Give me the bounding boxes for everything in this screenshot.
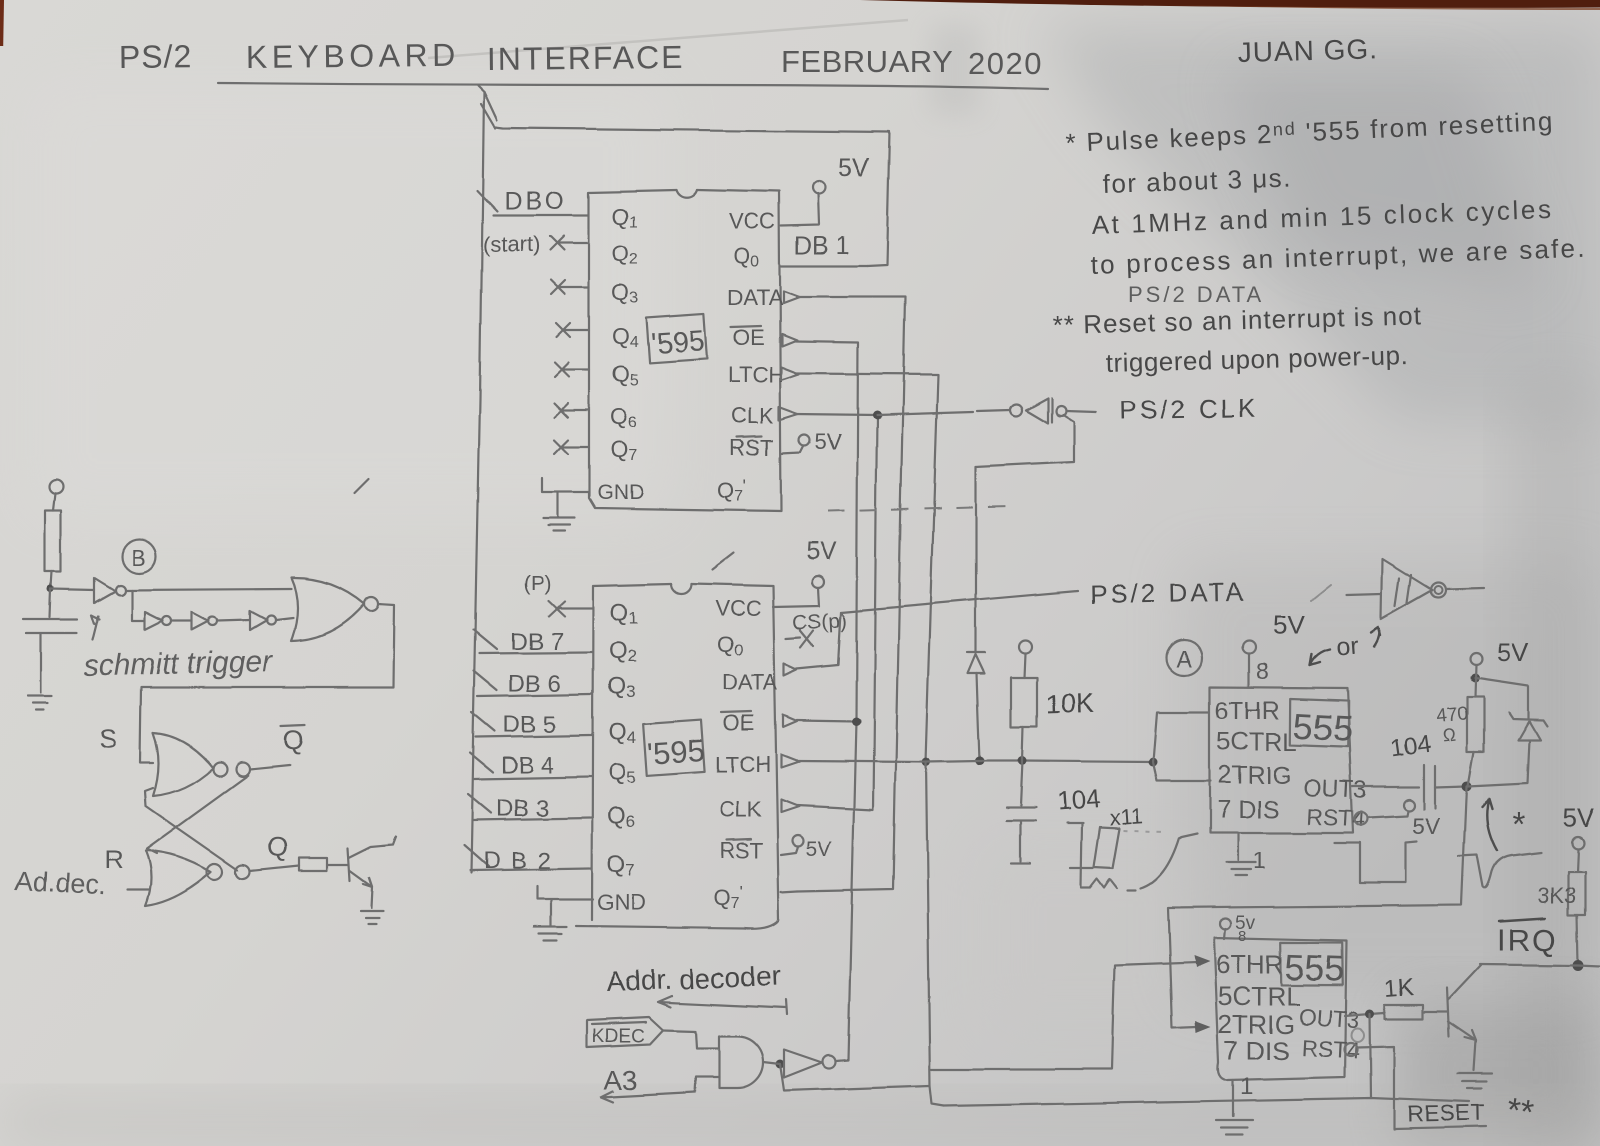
wire inverter out up to OE bus (836, 721, 856, 1061)
svg-text:IRQ: IRQ (1497, 922, 1558, 957)
wire AND out (763, 1062, 780, 1064)
wire to inverter (51, 589, 94, 590)
wire Q out (250, 866, 299, 871)
wire DATA net (U1 DATA to U2 Q7') (796, 297, 905, 891)
KDEC flag (587, 1017, 663, 1047)
transistor Q2 emitter arrow (1465, 1031, 1476, 1041)
svg-text:RST4: RST4 (1306, 803, 1366, 832)
svg-text:VCC: VCC (715, 596, 762, 621)
svg-text:Q: Q (283, 725, 304, 755)
wire 10K to bus (1022, 727, 1023, 761)
arrow OE in (782, 334, 797, 346)
resistor 1K (1384, 974, 1423, 1019)
555 A label box (1288, 698, 1355, 749)
svg-text:Q: Q (267, 832, 288, 862)
svg-text:OUT3: OUT3 (1298, 1003, 1361, 1033)
wire PS/2 CLK elbow down (976, 411, 1096, 467)
SR upper output node (236, 762, 250, 776)
svg-text:(start): (start) (483, 232, 540, 257)
svg-text:(P): (P) (523, 572, 551, 595)
diode (CLK to trigger bus) (968, 653, 985, 674)
svg-text:DATA: DATA (722, 670, 778, 695)
data bus vertical (471, 92, 484, 872)
wire (276, 618, 293, 620)
wire DB4 (474, 777, 592, 779)
diode (PS/2 CLK clamp) (1026, 398, 1052, 423)
svg-text:*: * (1512, 805, 1525, 842)
wire R input (127, 889, 149, 891)
resistor (base) (299, 858, 327, 871)
node IRQ (1573, 960, 1584, 971)
IRQ label (overline) (1497, 918, 1558, 957)
svg-text:schmitt trigger: schmitt trigger (83, 645, 273, 683)
svg-text:Ω: Ω (1441, 725, 1456, 746)
svg-text:10K: 10K (1045, 688, 1094, 720)
svg-text:DATA: DATA (727, 285, 783, 310)
wire GND (542, 478, 589, 518)
terminal 5V (U1 VCC) (813, 182, 826, 195)
wire OUT3 to cap (1353, 786, 1419, 788)
inverter 3 bubble (209, 617, 218, 626)
wire DB6 (478, 694, 592, 696)
wire 5V to 555A (1248, 654, 1250, 687)
svg-text:OE: OE (733, 325, 765, 350)
svg-text:DB 6: DB 6 (508, 670, 561, 697)
IC U1 top notch (676, 190, 697, 198)
svg-text:104: 104 (1389, 731, 1432, 763)
resistor 3K3 (1537, 872, 1585, 915)
or label with arrows (1310, 627, 1380, 665)
wire (218, 620, 250, 621)
node diode junction (976, 757, 985, 766)
svg-text:FEBRUARY: FEBRUARY (781, 44, 953, 79)
wire (53, 493, 55, 510)
svg-text:R: R (104, 845, 123, 875)
node LTCH junction (922, 758, 931, 767)
wire RST4 to RESET (1357, 1046, 1487, 1129)
inverter (decoder) (784, 1050, 822, 1078)
wire DB5 (476, 735, 592, 737)
wire resistor to node (1468, 752, 1474, 786)
NOR gate (SR latch lower) (145, 851, 211, 906)
wire VCC to 5V (773, 588, 819, 607)
wire to base (327, 864, 348, 866)
table edge strip (top) (860, 0, 1600, 8)
svg-text:JUAN GG.: JUAN GG. (1237, 33, 1378, 68)
arrow OE in (783, 715, 797, 727)
wire CLK to PS/2 CLK (877, 410, 1010, 415)
SR lower bubble (207, 864, 223, 880)
svg-text:**: ** (1505, 1090, 1536, 1131)
svg-text:PS/2: PS/2 (119, 38, 193, 75)
pin Q6 with x (554, 403, 637, 431)
arrow under label (658, 996, 787, 1015)
waveform spike with arrow (1459, 799, 1541, 888)
svg-text:5V: 5V (814, 429, 841, 454)
wire OE net (U1 OE to U2 OE) (795, 341, 858, 721)
terminal RST4 circle (1355, 813, 1368, 826)
svg-text:'595: '595 (650, 325, 706, 361)
ground (555B pin1) (1216, 1073, 1253, 1135)
svg-text:6THR: 6THR (1215, 697, 1280, 725)
svg-text:CLK: CLK (719, 797, 762, 822)
wire 5V to 3K3 (1577, 849, 1578, 872)
svg-text:1: 1 (1253, 848, 1266, 875)
svg-text:7 DIS: 7 DIS (1224, 1035, 1289, 1065)
svg-text:LTCH: LTCH (728, 362, 784, 387)
NOR gate (schmitt) (291, 578, 364, 641)
terminal 5V (555A RST) (1404, 800, 1415, 811)
svg-text:VCC: VCC (729, 209, 776, 234)
svg-text:5V: 5V (806, 838, 832, 861)
wire Qbar out (250, 765, 290, 769)
IC U1 label box 595 (646, 314, 707, 363)
wire OUT3 to 1K (1345, 1013, 1385, 1016)
wire 1K to base (1423, 1011, 1448, 1013)
AND gate (decoder) (719, 1036, 763, 1088)
node AND out (776, 1060, 785, 1069)
wire down to diode (975, 467, 977, 653)
svg-text:DB 4: DB 4 (501, 752, 554, 779)
svg-text:8: 8 (1256, 658, 1269, 684)
arrow CLK in (779, 407, 798, 420)
resistor 470 (1435, 697, 1484, 752)
IC 555 B body (1214, 938, 1347, 1080)
inverter 1 bubble (115, 585, 125, 595)
wire AND out down to latch bus (780, 1064, 930, 1091)
svg-text:5V: 5V (1273, 610, 1305, 640)
svg-text:555: 555 (1292, 705, 1354, 749)
wire collector to IRQ (1480, 964, 1578, 965)
Qbar label (281, 725, 305, 755)
svg-text:PS/2 DATA: PS/2 DATA (1128, 282, 1264, 307)
wire LTCH net (U1 LTCH down) (796, 373, 938, 762)
transistor Q1 (NPN) (348, 837, 396, 908)
svg-text:RESET: RESET (1407, 1100, 1487, 1127)
terminal PS/2 CLK left (1010, 404, 1022, 416)
node 10K junction (1018, 757, 1027, 766)
terminal (pull-up top) (49, 479, 63, 493)
svg-text:5V: 5V (1412, 813, 1441, 839)
wire THR2 run (930, 962, 1197, 1069)
wire DB7 (480, 652, 592, 653)
svg-text:INTERFACE: INTERFACE (487, 39, 685, 77)
wire Q0 to DB1 run (781, 265, 867, 267)
pin OE (overline) (721, 711, 755, 736)
terminal 5V (U1 RST) (799, 435, 810, 446)
svg-text:5CTRL: 5CTRL (1218, 981, 1300, 1011)
svg-text:Q7': Q7' (717, 476, 746, 505)
terminal 5V (U2 VCC) (812, 576, 824, 588)
inverter 2 (delay) (145, 612, 163, 630)
svg-text:5V: 5V (1497, 637, 1529, 667)
wire RST stub (781, 847, 798, 855)
capacitor (RC) (24, 589, 77, 692)
svg-text:x11: x11 (1109, 803, 1145, 830)
svg-text:B: B (131, 545, 146, 570)
inverter 4 (delay) (250, 611, 267, 630)
IC U2 top notch (671, 584, 691, 594)
arrow LTCH in (781, 755, 799, 768)
wire inv1 to NOR (125, 589, 291, 590)
terminal RST4 circle (555B) (1345, 1043, 1358, 1056)
terminal PS/2 CLK right (1056, 406, 1066, 416)
stray slash (1311, 585, 1331, 601)
wire VCC to 5V (781, 194, 819, 226)
svg-text:1K: 1K (1384, 974, 1415, 1003)
wire DB0 (493, 214, 588, 216)
svg-text:GND: GND (597, 890, 646, 915)
inverter bubble (823, 1056, 836, 1069)
arrow LTCH in (781, 367, 799, 380)
DB6 bus slash (474, 671, 497, 690)
svg-text:DB 1: DB 1 (794, 232, 850, 260)
arrow TRIG2 (1195, 1021, 1211, 1033)
wire PS/2 DATA (841, 591, 1078, 612)
svg-text:CLK: CLK (731, 403, 774, 428)
node 555 junction (1149, 758, 1158, 767)
wire RST stub (781, 446, 803, 453)
DB3 bus slash (468, 794, 491, 813)
ground (U2) (534, 927, 567, 941)
wire branch down to delay chain (132, 590, 145, 621)
ground (RC) (28, 695, 52, 709)
stray tick (712, 553, 734, 570)
svg-text:Addr. decoder: Addr. decoder (606, 960, 781, 997)
pin Q3 with x (551, 279, 639, 307)
ground (U1) (543, 518, 575, 531)
buffer with II symbol (1347, 559, 1484, 619)
svg-text:Q7': Q7' (713, 883, 742, 912)
wire zener branch (1475, 678, 1528, 719)
wire DB2 (470, 868, 592, 870)
wire KDEC to AND (663, 1030, 719, 1048)
wire 5V to 10K (1024, 653, 1025, 677)
arrow DATA in (783, 291, 799, 303)
arrow CLK in (781, 800, 799, 813)
svg-text:5V: 5V (838, 152, 870, 182)
pin Q5 with x (554, 361, 639, 389)
wire (172, 620, 192, 622)
wire OUT coupling down to TRIG2 (1168, 786, 1467, 1028)
wire RST4 to 5V (1368, 811, 1408, 818)
ground (555A pin1) (1226, 833, 1266, 876)
DB0 bus slash (477, 190, 497, 211)
terminal 5V (470R) (1470, 653, 1482, 665)
svg-text:OE: OE (723, 711, 755, 736)
inverter 1 (schmitt input) (94, 578, 115, 603)
svg-text:A3: A3 (604, 1065, 637, 1095)
terminal 5V (555A) (1243, 641, 1256, 654)
svg-text:KEYBOARD: KEYBOARD (246, 37, 460, 75)
svg-text:3K3: 3K3 (1537, 883, 1576, 908)
wire cap to node (1435, 786, 1466, 787)
resistor 10K (1011, 677, 1037, 727)
wire trigger bus (LTCH2 to 555) (797, 761, 1153, 762)
wire diode to bus (977, 674, 980, 761)
ground (Q2 emitter) (1458, 1074, 1492, 1089)
wire NOR out feedback loop (140, 604, 394, 763)
waveform pulse train x11 (1055, 783, 1197, 890)
svg-text:5V: 5V (1563, 803, 1595, 833)
svg-text:PS/2 CLK: PS/2 CLK (1120, 393, 1259, 425)
IC U2 label box 595 (643, 720, 706, 776)
pin Q1 x mark (548, 601, 592, 616)
SR lower output node (236, 865, 250, 879)
node OUT coupling (1462, 781, 1472, 791)
wire GND (537, 886, 593, 926)
arrow mark at cap (91, 615, 99, 640)
zener diode (1468, 713, 1547, 786)
capacitor (trigger RC) (1006, 761, 1035, 864)
wire Q0 stub with x (786, 630, 814, 648)
node A circle (1167, 641, 1202, 676)
waveform out pulse (555A) (1334, 842, 1417, 883)
node B circle (122, 539, 156, 573)
svg-text:104: 104 (1055, 783, 1100, 816)
svg-text:DB 5: DB 5 (503, 711, 556, 738)
IC U2 595 body (576, 584, 779, 928)
wire IRQ out (1578, 965, 1600, 966)
ghost circle (1352, 1029, 1365, 1042)
svg-text:5CTRL: 5CTRL (1217, 728, 1296, 756)
svg-text:5V: 5V (806, 538, 837, 566)
inverter 2 bubble (163, 617, 172, 626)
svg-text:Ad.dec.: Ad.dec. (14, 866, 107, 901)
title underline (218, 83, 1048, 89)
paper crease (second sheet edge) (428, 20, 908, 58)
bus top hooks (478, 86, 497, 128)
svg-text:PS/2 DATA: PS/2 DATA (1090, 576, 1247, 609)
svg-text:7 DIS: 7 DIS (1217, 796, 1280, 824)
pin RST (overline) (719, 838, 763, 863)
555 B label box (1279, 941, 1346, 989)
ground (Q1 emitter) (360, 911, 383, 924)
svg-text:RST: RST (719, 838, 763, 863)
wire CLK net (U1 CLK to U2 CLK) (795, 414, 877, 810)
wire (51, 572, 52, 588)
wire DB1 top run (495, 127, 890, 266)
node CLK junction (873, 411, 882, 420)
wire DB3 (472, 818, 592, 820)
transistor Q1 emitter arrow (363, 878, 372, 887)
arrow THR2 (1194, 955, 1210, 967)
IC U1 595 body (589, 190, 781, 511)
svg-text:8: 8 (1238, 928, 1246, 945)
wire cross coupling B (145, 788, 238, 870)
wire LTCH bus down (926, 762, 944, 1106)
terminal 5V (555B pin8) (1220, 913, 1256, 945)
svg-text:OUT3: OUT3 (1303, 774, 1368, 804)
terminal 5V (U2 RST) (793, 836, 804, 847)
arrow DATA in (784, 664, 797, 676)
transistor Q2 (NPN) (1447, 965, 1481, 1071)
wire OUT3 down to bottom run (1370, 1014, 1371, 1098)
resistor (pull-up) (45, 510, 61, 572)
node OUT3 branch (1366, 1010, 1375, 1019)
pin RST (overline) (730, 435, 774, 460)
pin Q2 with x (550, 236, 639, 268)
DB2 bus slash (464, 845, 488, 866)
svg-text:GND: GND (597, 481, 644, 504)
pin Q7 with x (554, 436, 637, 464)
svg-text:RST: RST (730, 435, 774, 460)
dashed construction line (828, 506, 1008, 511)
inverter 3 (delay) (192, 612, 209, 630)
svg-text:6THR: 6THR (1216, 949, 1284, 979)
svg-text:or: or (1335, 632, 1359, 661)
stray slash (355, 478, 369, 492)
table edge sliver (top-left corner) (0, 0, 4, 46)
wire 3K3 to IRQ node (1577, 915, 1578, 963)
wire 5V to resistor (1475, 665, 1476, 697)
wire cross coupling A (146, 775, 248, 854)
DB4 bus slash (470, 753, 493, 772)
inverter 4 bubble (267, 616, 276, 625)
NOR bubble (364, 597, 378, 611)
wire PS/2 DATA to DATA pin (797, 612, 841, 669)
svg-text:'595: '595 (646, 733, 706, 772)
pin OE (overline) (731, 325, 765, 350)
svg-text:A: A (1176, 646, 1192, 672)
svg-text:S: S (99, 724, 117, 754)
capacitor 104 (coupling) (1389, 731, 1435, 809)
svg-text:DB 7: DB 7 (510, 628, 563, 655)
svg-text:DBO: DBO (504, 187, 567, 215)
node 470 top (1471, 674, 1480, 683)
terminal 5V (3K3) (1572, 837, 1584, 849)
wire Q7' out (781, 891, 798, 892)
NOR gate (SR latch upper) (153, 733, 213, 796)
terminal 5V (10K) (1019, 640, 1032, 653)
svg-text:2020: 2020 (968, 46, 1043, 81)
wire A3 (601, 1077, 719, 1102)
svg-text:1: 1 (1240, 1073, 1253, 1100)
pin Q4 with x (556, 323, 639, 351)
node (RC junction) (48, 586, 55, 593)
SR upper bubble (213, 762, 227, 776)
DB5 bus slash (472, 712, 495, 731)
node OE junction (852, 717, 861, 726)
wire bottom run to RESET (944, 1098, 1470, 1106)
svg-text:KDEC: KDEC (592, 1026, 645, 1047)
IC 555 A body (1210, 687, 1353, 833)
svg-text:2TRIG: 2TRIG (1218, 761, 1292, 789)
DB7 bus slash (474, 630, 497, 649)
svg-text:LTCH: LTCH (715, 752, 771, 777)
wire THR/TRIG tie (555 A) (1153, 712, 1211, 781)
